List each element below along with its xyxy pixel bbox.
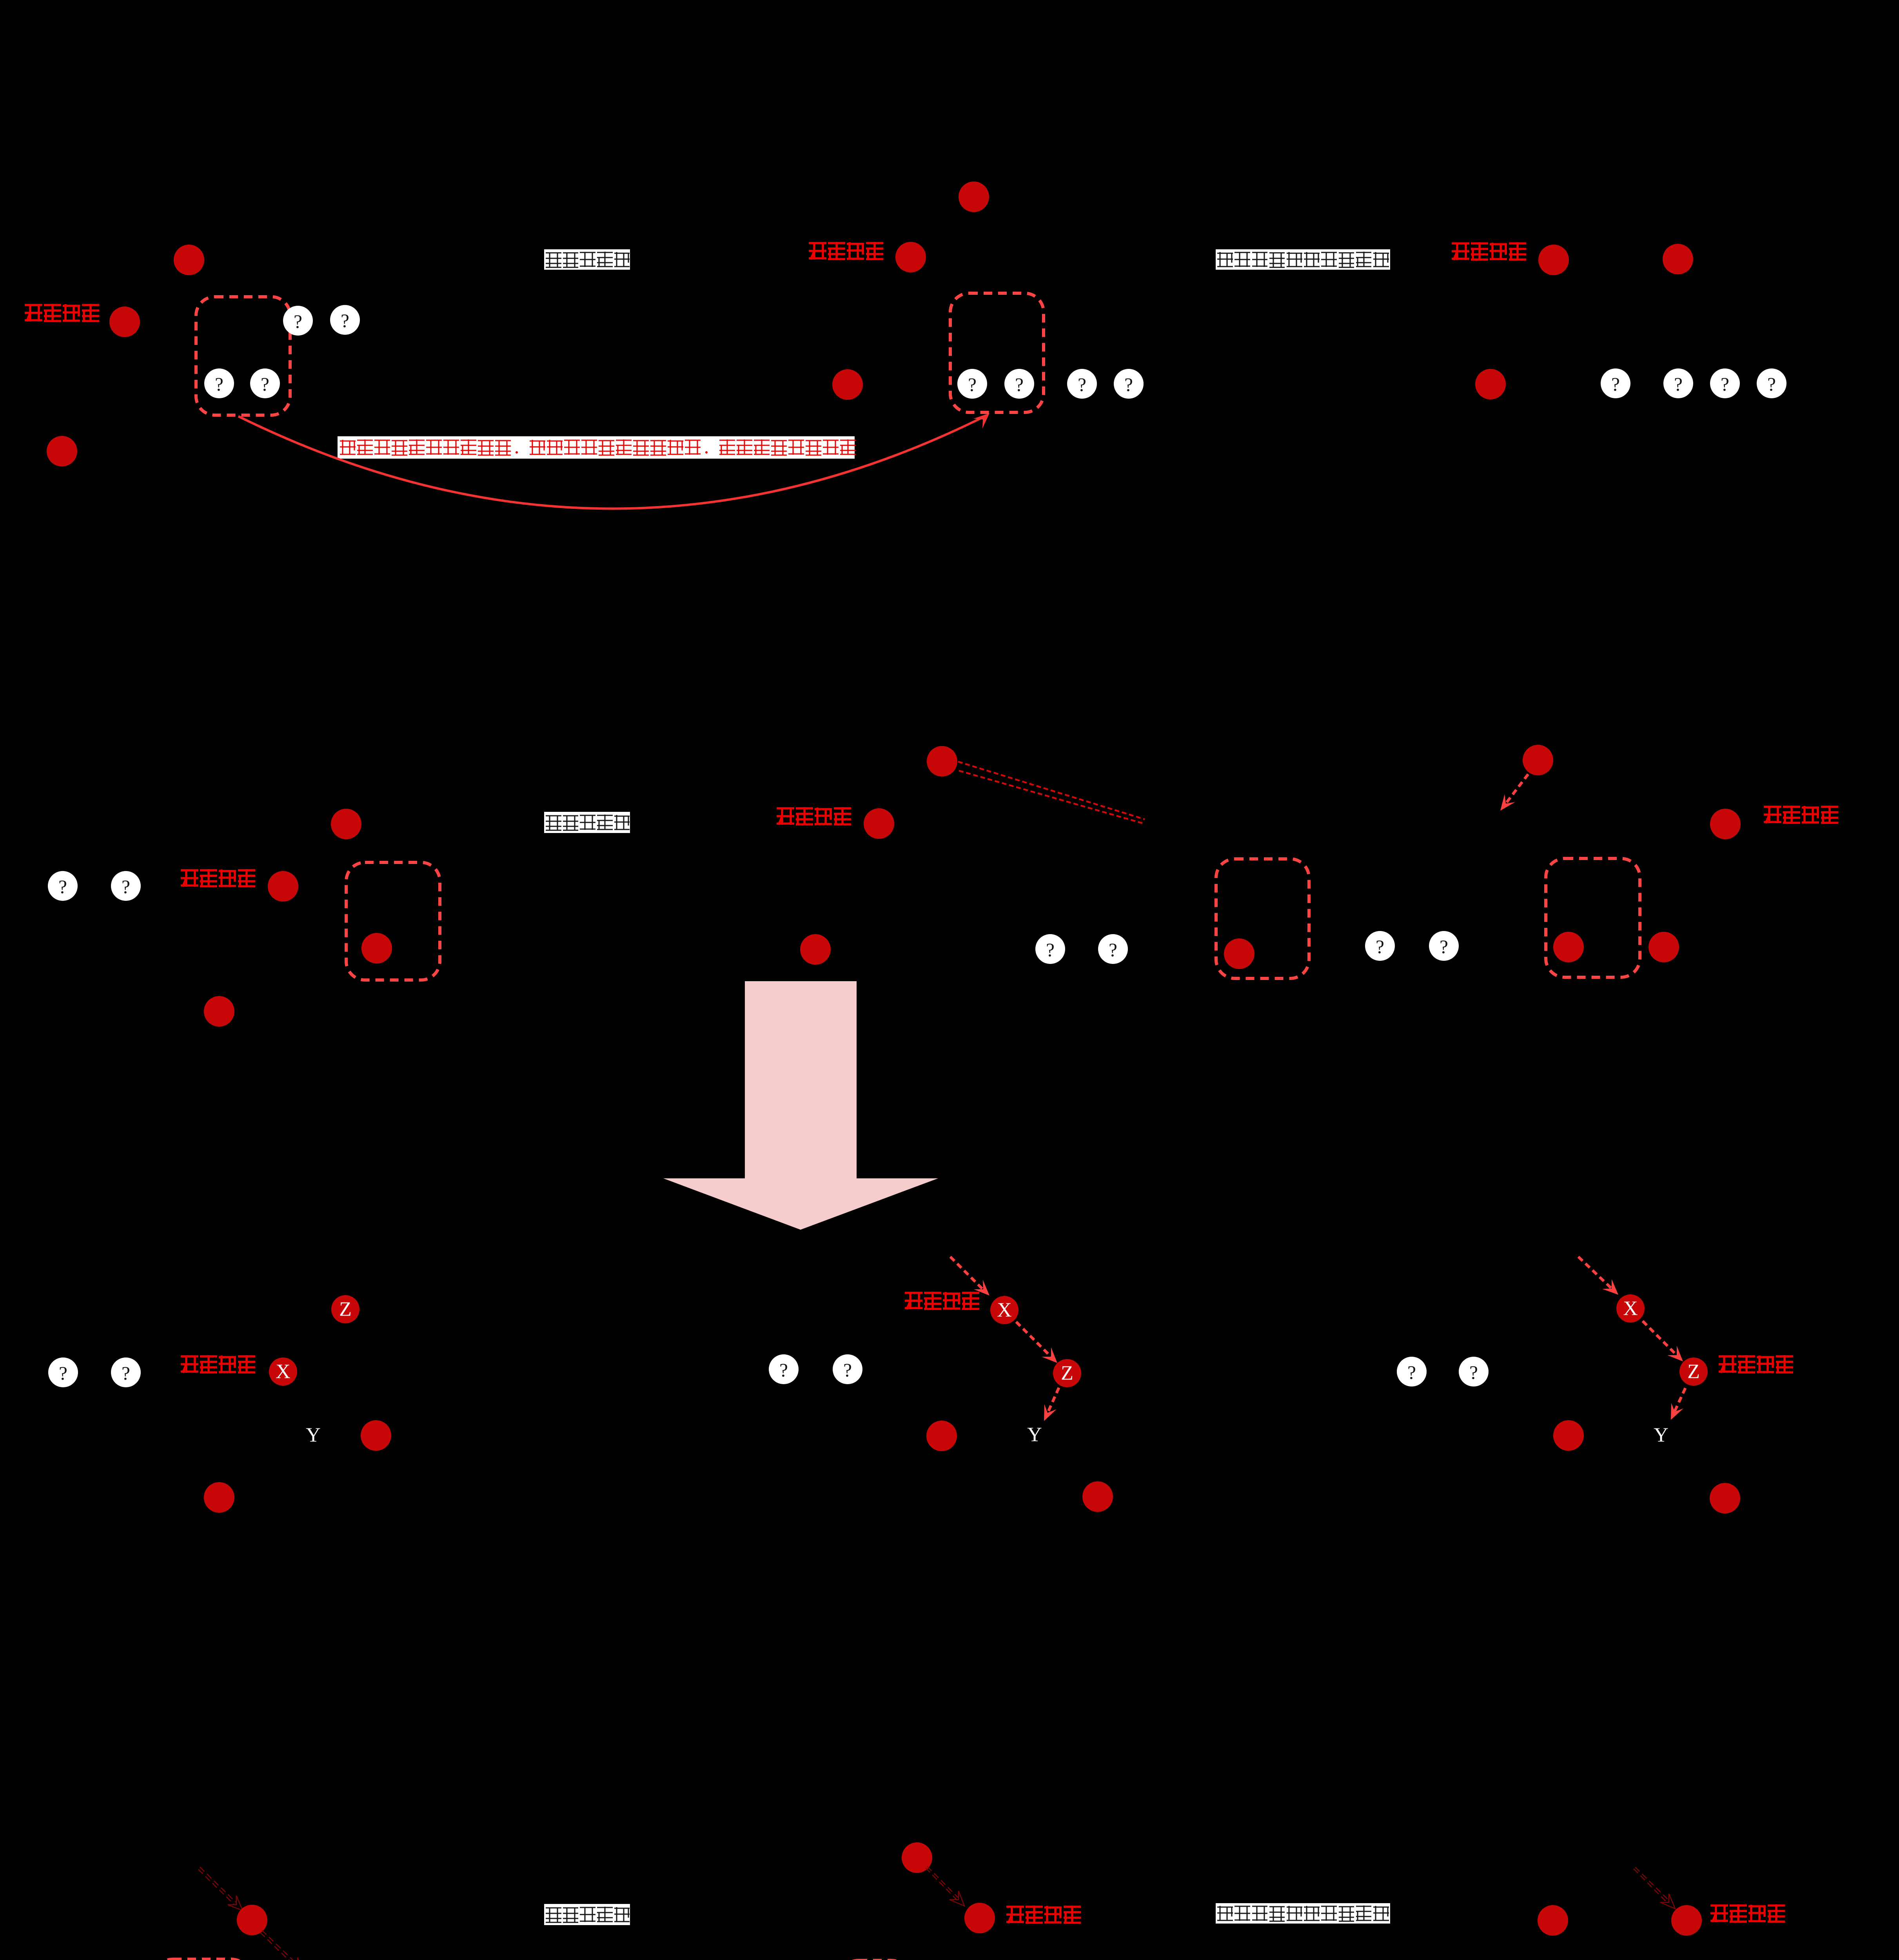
- svg-text:?: ?: [215, 374, 223, 395]
- dashed box uncle subtree (row1 mid): [950, 293, 1044, 412]
- svg-text:?: ?: [1721, 374, 1729, 395]
- dashed arrow X to Z (row3 right): [1643, 1321, 1683, 1361]
- white ? node (row2 mid a): [1035, 934, 1065, 964]
- red node Z (row3 right): [1679, 1357, 1708, 1386]
- dark dashed arrow b (row4 left): [260, 1930, 304, 1960]
- white label 叔叔是黑色 (row2): [544, 812, 630, 833]
- white ? node (row3 left b): [111, 1357, 141, 1387]
- red node first (row4 left): [237, 1905, 267, 1935]
- white ? node (row1 left b): [330, 305, 360, 335]
- svg-text:?: ?: [1440, 936, 1448, 958]
- svg-text:?: ?: [1124, 374, 1133, 396]
- red node current (row1 mid): [895, 242, 926, 272]
- white ? node (row1 right c): [1710, 368, 1740, 398]
- white ? node (row1 right b): [1663, 368, 1693, 398]
- red node in box (row2 left): [361, 933, 392, 964]
- white ? node (row1 right d): [1757, 368, 1786, 398]
- red node in box (row2 right): [1553, 932, 1584, 962]
- white ? node (row2 left b): [111, 871, 141, 901]
- svg-text:?: ?: [1078, 374, 1086, 396]
- label 当前节点 (row4 right): [1710, 1904, 1785, 1922]
- white ? node (row3 mid a): [769, 1354, 799, 1384]
- white ? node (row3 right a): [1397, 1357, 1427, 1387]
- red node right of Y (row3 left): [361, 1420, 391, 1451]
- svg-text:?: ?: [1611, 374, 1620, 395]
- svg-text:?: ?: [1015, 374, 1024, 396]
- red node Z (row3 left): [331, 1295, 359, 1323]
- red node top (row4 mid): [902, 1842, 932, 1873]
- svg-text:?: ?: [122, 1363, 130, 1384]
- red node low (row1 right): [1475, 369, 1506, 399]
- white ? node (row3 right b): [1459, 1357, 1489, 1387]
- dashed arrow Z to Y (row3 right): [1671, 1388, 1685, 1420]
- white label 叔叔是黑色 (row1): [544, 249, 630, 270]
- red node low (row2 left): [204, 996, 234, 1027]
- dashed box uncle subtree (row1 left): [196, 297, 290, 415]
- svg-text:?: ?: [1109, 939, 1117, 961]
- red node X (row3 mid): [990, 1296, 1018, 1324]
- red node current (row4 right): [1671, 1905, 1702, 1936]
- dashed arrow X to Z (row3 mid): [1016, 1322, 1057, 1363]
- dashed arrow down-left (row2 right): [1500, 774, 1528, 811]
- red node low (row2 mid): [800, 934, 831, 965]
- white ? node (row2 mid b): [1098, 934, 1128, 964]
- svg-text:Y: Y: [1027, 1424, 1042, 1446]
- svg-text:?: ?: [779, 1359, 788, 1381]
- white letter Y (row3 right): [1654, 1424, 1668, 1446]
- dark dashed arrow (row4 mid): [926, 1866, 964, 1906]
- red node top (row2 right): [1523, 745, 1553, 775]
- red node current (row4 mid): [964, 1903, 995, 1933]
- svg-text:Z: Z: [339, 1298, 352, 1321]
- white ? node (row2 right a): [1365, 931, 1395, 961]
- label 当前节点 (row1 mid): [809, 242, 883, 260]
- white ? node (row1 mid c): [1067, 369, 1097, 399]
- red node Z (row3 mid): [1053, 1359, 1081, 1387]
- svg-text:Z: Z: [1687, 1361, 1700, 1383]
- dashed arrow into X (row3 mid): [950, 1257, 989, 1296]
- white ? node (row1 mid b): [1004, 369, 1034, 399]
- svg-text:?: ?: [58, 876, 67, 898]
- svg-text:?: ?: [122, 876, 130, 898]
- white ? node (row1 right a): [1601, 368, 1630, 398]
- svg-text:?: ?: [261, 374, 269, 395]
- red node grandparent (row1 mid): [959, 181, 989, 212]
- svg-text:?: ?: [1674, 374, 1683, 395]
- white letter Y (row3 mid): [1027, 1424, 1042, 1446]
- white ? node (row1 left c): [204, 368, 234, 398]
- label 当前节点 (row3 right): [1719, 1355, 1793, 1373]
- svg-text:?: ?: [1376, 936, 1384, 958]
- red node current (row2 left): [268, 871, 298, 902]
- dark dashed arrow a (row4 left): [198, 1867, 243, 1911]
- svg-text:Y: Y: [306, 1424, 321, 1446]
- red node grandparent (row2 left): [331, 809, 361, 839]
- white ? node (row2 right b): [1429, 931, 1459, 961]
- svg-text:X: X: [1623, 1298, 1638, 1320]
- svg-text:Z: Z: [1061, 1362, 1073, 1385]
- label 当前节点 (row2 right): [1764, 806, 1838, 823]
- label 当前节点 (row2 mid): [777, 807, 851, 825]
- white ? node (row3 left a): [48, 1357, 78, 1387]
- white label 把爷爷和父亲进行反色 (row1): [1216, 249, 1390, 270]
- svg-text:X: X: [276, 1361, 290, 1383]
- red node right of box (row2 right): [1648, 932, 1679, 962]
- white ? node (row1 left d): [250, 368, 280, 398]
- svg-text:Y: Y: [1654, 1424, 1668, 1446]
- dashed box (row4 left): [154, 1959, 250, 1960]
- svg-text:?: ?: [1767, 374, 1776, 395]
- red node top (row2 mid): [927, 746, 957, 777]
- red node low (row3 right): [1710, 1483, 1740, 1514]
- label 当前节点 (row2 left): [181, 869, 255, 887]
- white ? node (row1 mid a): [957, 369, 987, 399]
- svg-text:?: ?: [1046, 939, 1055, 961]
- svg-text:?: ?: [1469, 1362, 1478, 1383]
- red node low (row3 left): [204, 1482, 234, 1513]
- white ? node (row1 left a): [283, 306, 313, 336]
- caption 将这些子孙过继给叔叔... (row1): [338, 436, 856, 459]
- svg-text:?: ?: [294, 311, 302, 332]
- red node X (row3 right): [1616, 1294, 1645, 1323]
- big pink down arrow: [663, 981, 938, 1230]
- red node current (row2 right): [1710, 809, 1741, 839]
- red node grandparent (row1 left): [174, 245, 204, 275]
- red node low (row3 mid): [1082, 1481, 1113, 1512]
- dashed arrow Z to Y (row3 mid): [1044, 1388, 1059, 1421]
- svg-text:?: ?: [59, 1363, 67, 1384]
- label 当前节点 (row1 left): [25, 304, 99, 321]
- dashed box (row2 right): [1546, 858, 1640, 977]
- dark dashed arrow (row4 right): [1634, 1867, 1675, 1909]
- red node left (row4 right): [1538, 1905, 1568, 1936]
- red node low (row1 left): [47, 436, 77, 466]
- red node b (row1 right): [1663, 244, 1693, 274]
- white ? node (row1 mid d): [1114, 369, 1144, 399]
- dashed arrow into X (row3 right): [1578, 1257, 1618, 1295]
- curved arrow to uncle box (row1): [238, 413, 989, 509]
- white ? node (row2 left a): [48, 871, 78, 901]
- dashed box uncle subtree (row2 left): [346, 862, 440, 980]
- svg-text:?: ?: [968, 374, 977, 396]
- red node left (row3 right): [1553, 1420, 1584, 1451]
- red node a (row1 right): [1538, 245, 1569, 275]
- dashed box (row2 mid): [1216, 859, 1309, 978]
- red node current (row2 mid): [864, 808, 894, 839]
- red node left (row3 mid): [926, 1421, 957, 1451]
- label 当前节点 (row3 left): [181, 1355, 255, 1373]
- white label 叔叔是黑色 (row4): [544, 1904, 630, 1925]
- svg-text:?: ?: [1407, 1362, 1416, 1383]
- label 当前节点 (row1 right): [1452, 242, 1526, 260]
- label 当前节点 (row4 mid): [1006, 1906, 1081, 1923]
- red node X (row3 left): [269, 1357, 297, 1386]
- white label 把爷爷和父亲进行反色 (row4): [1216, 1903, 1390, 1924]
- svg-text:?: ?: [341, 310, 349, 332]
- svg-text:X: X: [997, 1299, 1012, 1321]
- white ? node (row3 mid b): [833, 1354, 862, 1384]
- red node in box (row2 mid): [1224, 938, 1255, 969]
- double dashed line (row2 mid): [958, 762, 1145, 824]
- red node current (row1 left): [109, 307, 140, 337]
- svg-text:?: ?: [843, 1359, 852, 1381]
- white letter Y (row3 left): [306, 1424, 321, 1446]
- label 当前节点 (row3 mid): [905, 1292, 979, 1309]
- red node low (row1 mid): [832, 369, 863, 400]
